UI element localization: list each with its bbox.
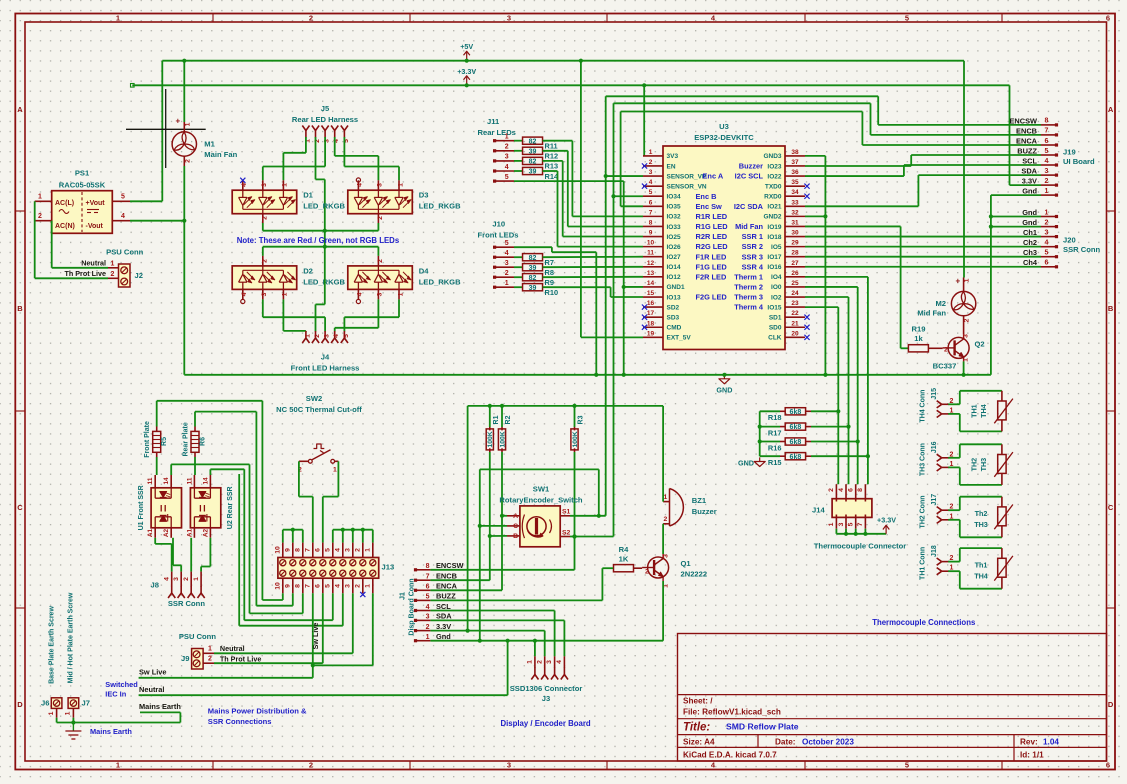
svg-text:1k: 1k xyxy=(914,334,923,343)
svg-text:IEC In: IEC In xyxy=(105,690,126,699)
svg-text:TH1 Conn: TH1 Conn xyxy=(920,547,927,580)
svg-text:EN: EN xyxy=(667,163,676,170)
svg-text:J2: J2 xyxy=(135,271,143,280)
svg-text:6: 6 xyxy=(1106,14,1110,23)
svg-text:24: 24 xyxy=(791,290,799,297)
svg-text:SSR Conn: SSR Conn xyxy=(1063,245,1100,254)
svg-text:TH1: TH1 xyxy=(970,404,979,418)
svg-text:Rear Plate: Rear Plate xyxy=(183,422,190,456)
svg-text:+: + xyxy=(956,277,961,286)
svg-text:IO17: IO17 xyxy=(767,254,781,261)
svg-text:R19: R19 xyxy=(912,324,926,333)
svg-text:6: 6 xyxy=(426,584,430,591)
svg-text:100K: 100K xyxy=(499,431,506,447)
svg-text:29: 29 xyxy=(791,240,799,247)
svg-text:14: 14 xyxy=(202,477,209,485)
svg-text:Buzzer: Buzzer xyxy=(739,162,763,171)
svg-text:TH4: TH4 xyxy=(979,404,988,418)
svg-text:Th Prot Live: Th Prot Live xyxy=(220,655,262,664)
svg-text:Sheet: /: Sheet: / xyxy=(683,697,713,706)
svg-text:IO5: IO5 xyxy=(771,244,782,251)
svg-text:82: 82 xyxy=(529,255,537,262)
svg-text:Gnd: Gnd xyxy=(1022,218,1037,227)
svg-text:A2: A2 xyxy=(163,528,170,537)
svg-text:3.3V: 3.3V xyxy=(1022,177,1037,186)
svg-text:3: 3 xyxy=(505,154,509,161)
svg-text:Sw Live: Sw Live xyxy=(139,668,167,677)
svg-text:SD1: SD1 xyxy=(769,314,782,321)
svg-text:1: 1 xyxy=(304,334,311,338)
svg-text:6k8: 6k8 xyxy=(790,454,802,461)
svg-text:7: 7 xyxy=(649,209,653,216)
svg-text:TH2: TH2 xyxy=(970,458,979,472)
svg-text:5: 5 xyxy=(1045,148,1049,155)
svg-text:7: 7 xyxy=(304,584,311,588)
svg-text:SENSOR_VP: SENSOR_VP xyxy=(667,173,707,180)
svg-text:SSR 2: SSR 2 xyxy=(742,242,763,251)
svg-text:Front LED Harness: Front LED Harness xyxy=(291,364,360,373)
svg-text:Rev:: Rev: xyxy=(1020,737,1038,746)
svg-text:Enc Sw: Enc Sw xyxy=(696,202,723,211)
svg-text:SMD Reflow Plate: SMD Reflow Plate xyxy=(726,722,799,732)
svg-text:Thermocouple Connections: Thermocouple Connections xyxy=(872,618,976,627)
svg-text:5: 5 xyxy=(324,584,331,588)
svg-text:5: 5 xyxy=(505,174,509,181)
svg-text:10: 10 xyxy=(647,240,655,247)
svg-text:2: 2 xyxy=(354,584,361,588)
svg-text:SCL: SCL xyxy=(436,602,451,611)
svg-text:ENCB: ENCB xyxy=(1016,126,1037,135)
svg-text:3: 3 xyxy=(505,260,509,267)
svg-text:Thermocouple Connector: Thermocouple Connector xyxy=(814,542,906,551)
svg-text:IO13: IO13 xyxy=(667,294,681,301)
svg-text:R1R LED: R1R LED xyxy=(696,212,728,221)
svg-text:2: 2 xyxy=(645,569,649,576)
svg-text:NC 50C Thermal Cut-off: NC 50C Thermal Cut-off xyxy=(276,405,362,414)
svg-text:R15: R15 xyxy=(768,458,782,467)
svg-text:4: 4 xyxy=(357,183,364,187)
svg-text:SSR Connections: SSR Connections xyxy=(208,717,272,726)
svg-text:1: 1 xyxy=(111,260,115,267)
svg-text:J4: J4 xyxy=(321,353,330,362)
svg-text:J17: J17 xyxy=(931,494,938,506)
svg-text:M1: M1 xyxy=(204,140,215,149)
svg-text:IO4: IO4 xyxy=(771,274,782,281)
svg-text:IO22: IO22 xyxy=(767,173,781,180)
svg-text:3: 3 xyxy=(662,554,669,558)
svg-text:6: 6 xyxy=(314,548,321,552)
svg-text:SDA: SDA xyxy=(436,612,452,621)
svg-text:Front Plate: Front Plate xyxy=(144,421,151,458)
svg-text:1: 1 xyxy=(65,711,72,715)
svg-text:R8: R8 xyxy=(545,268,554,277)
svg-text:A1: A1 xyxy=(186,528,193,537)
svg-text:D3: D3 xyxy=(419,191,429,200)
svg-text:1: 1 xyxy=(116,761,120,770)
svg-text:1: 1 xyxy=(185,122,192,126)
svg-text:Mains Earth: Mains Earth xyxy=(90,727,132,736)
svg-text:2: 2 xyxy=(261,259,268,263)
svg-text:R13: R13 xyxy=(545,162,559,171)
svg-text:IO2: IO2 xyxy=(771,294,782,301)
svg-text:3: 3 xyxy=(344,548,351,552)
svg-text:S1: S1 xyxy=(562,509,571,516)
svg-text:6: 6 xyxy=(649,199,653,206)
svg-text:+5V: +5V xyxy=(460,42,473,51)
svg-text:Display / Encoder Board: Display / Encoder Board xyxy=(501,719,591,728)
svg-text:82: 82 xyxy=(529,138,537,145)
svg-text:2: 2 xyxy=(664,516,668,523)
svg-text:3: 3 xyxy=(1045,229,1049,236)
svg-text:R5: R5 xyxy=(161,437,168,446)
svg-text:Mid / Hot Plate Earth Screw: Mid / Hot Plate Earth Screw xyxy=(68,592,75,683)
svg-text:2: 2 xyxy=(426,624,430,631)
svg-text:File: ReflowV1.kicad_sch: File: ReflowV1.kicad_sch xyxy=(683,708,781,717)
svg-text:PS1: PS1 xyxy=(75,169,90,178)
svg-text:2: 2 xyxy=(1045,178,1049,185)
svg-text:15: 15 xyxy=(647,290,655,297)
svg-text:2: 2 xyxy=(314,334,321,338)
svg-text:6: 6 xyxy=(848,488,855,492)
svg-text:Buzzer: Buzzer xyxy=(692,507,717,516)
svg-text:ENCA: ENCA xyxy=(1016,136,1038,145)
svg-text:IO19: IO19 xyxy=(767,224,781,231)
svg-text:Neutral: Neutral xyxy=(139,685,164,694)
svg-text:IO34: IO34 xyxy=(667,194,681,201)
svg-text:Mid Fan: Mid Fan xyxy=(917,308,946,317)
svg-text:C: C xyxy=(513,523,518,530)
svg-text:10: 10 xyxy=(274,582,281,590)
svg-text:1: 1 xyxy=(828,522,835,526)
svg-text:IO16: IO16 xyxy=(767,264,781,271)
svg-text:6k8: 6k8 xyxy=(790,424,802,431)
svg-text:GND: GND xyxy=(716,385,732,394)
svg-text:82: 82 xyxy=(529,159,537,166)
svg-text:Front LEDs: Front LEDs xyxy=(478,231,519,240)
svg-text:SSR 3: SSR 3 xyxy=(742,252,763,261)
svg-text:100K: 100K xyxy=(572,431,579,447)
svg-text:B: B xyxy=(513,533,518,540)
svg-text:8: 8 xyxy=(649,219,653,226)
svg-text:SSR Conn: SSR Conn xyxy=(168,599,205,608)
svg-text:J5: J5 xyxy=(321,104,330,113)
svg-text:KiCad E.D.A. kicad 7.0.7: KiCad E.D.A. kicad 7.0.7 xyxy=(683,750,777,759)
svg-text:1: 1 xyxy=(364,584,371,588)
svg-text:8: 8 xyxy=(857,488,864,492)
svg-text:3: 3 xyxy=(261,183,268,187)
svg-text:F2G LED: F2G LED xyxy=(696,293,728,302)
svg-text:AC(L): AC(L) xyxy=(55,200,74,207)
svg-text:R18: R18 xyxy=(768,413,782,422)
svg-text:3: 3 xyxy=(377,292,384,296)
svg-text:J16: J16 xyxy=(931,441,938,453)
svg-text:D2: D2 xyxy=(303,266,313,275)
svg-text:31: 31 xyxy=(791,219,799,226)
svg-text:6k8: 6k8 xyxy=(790,409,802,416)
svg-text:36: 36 xyxy=(791,169,799,176)
svg-text:9: 9 xyxy=(284,584,291,588)
svg-text:1K: 1K xyxy=(619,555,629,564)
svg-text:D: D xyxy=(1108,700,1114,709)
svg-text:SD3: SD3 xyxy=(667,314,680,321)
svg-text:2: 2 xyxy=(354,548,361,552)
svg-text:2: 2 xyxy=(111,271,115,278)
svg-text:4: 4 xyxy=(1045,240,1049,247)
svg-text:2: 2 xyxy=(261,216,268,220)
svg-text:1: 1 xyxy=(397,183,404,187)
svg-text:B: B xyxy=(1108,304,1114,313)
svg-text:Enc A: Enc A xyxy=(703,172,724,181)
svg-text:J15: J15 xyxy=(931,388,938,400)
svg-text:Main Fan: Main Fan xyxy=(204,150,237,159)
svg-text:+: + xyxy=(176,117,181,126)
svg-text:F2R LED: F2R LED xyxy=(696,272,727,281)
svg-text:Neutral: Neutral xyxy=(220,644,245,653)
svg-text:Note: These are Red / Green, n: Note: These are Red / Green, not RGB LED… xyxy=(237,236,400,245)
svg-text:1: 1 xyxy=(282,183,289,187)
svg-text:R7: R7 xyxy=(545,258,554,267)
svg-text:ENCSW: ENCSW xyxy=(436,561,464,570)
svg-text:3V3: 3V3 xyxy=(667,153,679,160)
svg-text:SD2: SD2 xyxy=(667,304,680,311)
svg-text:Mid Fan: Mid Fan xyxy=(735,222,763,231)
svg-text:26: 26 xyxy=(791,270,799,277)
svg-text:CLK: CLK xyxy=(768,335,782,342)
svg-text:4: 4 xyxy=(333,334,340,338)
svg-text:2: 2 xyxy=(183,577,190,581)
svg-text:BUZZ: BUZZ xyxy=(436,592,456,601)
svg-text:SW2: SW2 xyxy=(306,394,322,403)
svg-text:EXT_5V: EXT_5V xyxy=(667,335,692,342)
svg-text:1: 1 xyxy=(1045,188,1049,195)
svg-text:4: 4 xyxy=(426,604,430,611)
svg-text:4: 4 xyxy=(556,660,563,664)
svg-text:R10: R10 xyxy=(545,288,559,297)
svg-text:14: 14 xyxy=(163,477,170,485)
svg-text:A1: A1 xyxy=(147,528,154,537)
svg-text:SSD1306 Connector: SSD1306 Connector xyxy=(510,684,583,693)
svg-text:4: 4 xyxy=(241,292,248,296)
svg-text:R17: R17 xyxy=(768,429,782,438)
svg-text:SD0: SD0 xyxy=(769,325,782,332)
svg-text:IO0: IO0 xyxy=(771,284,782,291)
svg-text:1: 1 xyxy=(193,577,200,581)
svg-text:Ch3: Ch3 xyxy=(1023,248,1037,257)
svg-text:3: 3 xyxy=(507,14,511,23)
svg-text:SSR 1: SSR 1 xyxy=(742,232,763,241)
svg-text:J3: J3 xyxy=(542,694,550,703)
svg-text:13: 13 xyxy=(647,270,655,277)
svg-text:20: 20 xyxy=(791,330,799,337)
svg-text:R9: R9 xyxy=(545,278,554,287)
svg-text:S2: S2 xyxy=(562,529,571,536)
svg-text:39: 39 xyxy=(529,265,537,272)
svg-text:4: 4 xyxy=(241,183,248,187)
svg-text:4: 4 xyxy=(649,179,653,186)
svg-text:SCL: SCL xyxy=(1022,156,1037,165)
svg-text:30: 30 xyxy=(791,230,799,237)
svg-text:4: 4 xyxy=(1045,158,1049,165)
svg-text:3: 3 xyxy=(546,660,553,664)
svg-text:IO25: IO25 xyxy=(667,234,681,241)
svg-text:J10: J10 xyxy=(492,220,505,229)
svg-text:J13: J13 xyxy=(382,563,395,572)
svg-text:2: 2 xyxy=(309,14,313,23)
svg-text:3: 3 xyxy=(649,169,653,176)
svg-text:27: 27 xyxy=(791,260,799,267)
svg-text:4: 4 xyxy=(838,488,845,492)
svg-text:1: 1 xyxy=(649,149,653,156)
svg-text:Ch1: Ch1 xyxy=(1023,228,1037,237)
svg-text:LED_RKGB: LED_RKGB xyxy=(419,277,461,286)
svg-text:J20: J20 xyxy=(1063,236,1076,245)
svg-text:BC337: BC337 xyxy=(933,361,957,370)
svg-text:TH3 Conn: TH3 Conn xyxy=(920,443,927,476)
svg-text:1: 1 xyxy=(426,634,430,641)
svg-text:I2C SDA: I2C SDA xyxy=(734,202,764,211)
svg-text:R12: R12 xyxy=(545,152,559,161)
svg-text:3: 3 xyxy=(963,334,970,338)
svg-text:J8: J8 xyxy=(151,581,159,590)
svg-text:8: 8 xyxy=(426,563,430,570)
svg-text:1: 1 xyxy=(38,194,42,201)
svg-text:IO35: IO35 xyxy=(667,204,681,211)
svg-text:34: 34 xyxy=(791,189,799,196)
svg-text:Ch4: Ch4 xyxy=(1023,258,1038,267)
svg-text:Disp Board Conn: Disp Board Conn xyxy=(409,578,416,635)
svg-text:Neutral: Neutral xyxy=(81,259,106,268)
svg-text:39: 39 xyxy=(529,285,537,292)
svg-text:1: 1 xyxy=(282,292,289,296)
svg-text:2: 2 xyxy=(944,347,948,354)
svg-text:IO33: IO33 xyxy=(667,224,681,231)
svg-text:J19: J19 xyxy=(1063,148,1076,157)
svg-text:CMD: CMD xyxy=(667,325,682,332)
svg-text:1: 1 xyxy=(963,358,970,362)
svg-text:4: 4 xyxy=(334,584,341,588)
svg-text:2: 2 xyxy=(649,159,653,166)
svg-text:8: 8 xyxy=(294,584,301,588)
svg-text:Gnd: Gnd xyxy=(436,632,451,641)
svg-text:Therm 4: Therm 4 xyxy=(734,303,764,312)
svg-text:M2: M2 xyxy=(935,299,946,308)
svg-text:GND: GND xyxy=(738,458,754,467)
svg-text:7: 7 xyxy=(426,574,430,581)
svg-text:Gnd: Gnd xyxy=(1022,187,1037,196)
svg-text:9: 9 xyxy=(284,548,291,552)
svg-text:2: 2 xyxy=(377,216,384,220)
svg-text:U1 Front SSR: U1 Front SSR xyxy=(138,485,145,530)
svg-text:1: 1 xyxy=(333,467,337,474)
svg-text:5: 5 xyxy=(905,14,909,23)
svg-text:7: 7 xyxy=(857,522,864,526)
svg-text:IO12: IO12 xyxy=(667,274,681,281)
svg-text:3: 3 xyxy=(173,577,180,581)
svg-text:3.3V: 3.3V xyxy=(436,622,451,631)
svg-text:100K: 100K xyxy=(487,431,494,447)
svg-text:IO26: IO26 xyxy=(667,244,681,251)
svg-text:17: 17 xyxy=(647,310,655,317)
svg-text:PSU Conn: PSU Conn xyxy=(179,632,216,641)
svg-text:5: 5 xyxy=(343,334,350,338)
svg-text:4: 4 xyxy=(334,548,341,552)
svg-text:1: 1 xyxy=(208,646,212,653)
svg-text:2: 2 xyxy=(309,761,313,770)
svg-text:1: 1 xyxy=(397,292,404,296)
svg-text:Sw Live: Sw Live xyxy=(311,623,320,650)
svg-text:14: 14 xyxy=(647,280,655,287)
svg-text:19: 19 xyxy=(647,330,655,337)
svg-text:+3.3V: +3.3V xyxy=(457,67,476,76)
svg-text:2: 2 xyxy=(377,259,384,263)
svg-text:R3: R3 xyxy=(578,415,585,424)
svg-text:25: 25 xyxy=(791,280,799,287)
svg-text:Q2: Q2 xyxy=(975,339,985,348)
svg-text:R2R LED: R2R LED xyxy=(696,232,728,241)
svg-text:D: D xyxy=(17,700,23,709)
svg-text:Mains Earth: Mains Earth xyxy=(139,702,181,711)
svg-text:ENCB: ENCB xyxy=(436,572,457,581)
svg-text:7: 7 xyxy=(304,548,311,552)
svg-text:IO18: IO18 xyxy=(767,234,781,241)
svg-text:Rear LEDs: Rear LEDs xyxy=(478,128,516,137)
svg-text:6: 6 xyxy=(1045,138,1049,145)
svg-text:J18: J18 xyxy=(931,545,938,557)
svg-text:38: 38 xyxy=(791,149,799,156)
svg-text:5: 5 xyxy=(324,548,331,552)
svg-text:IO15: IO15 xyxy=(767,304,781,311)
svg-text:IO21: IO21 xyxy=(767,204,781,211)
svg-text:A: A xyxy=(1108,105,1114,114)
svg-text:I2C SCL: I2C SCL xyxy=(735,172,764,181)
svg-text:5: 5 xyxy=(905,761,909,770)
svg-text:U3: U3 xyxy=(719,122,729,131)
svg-text:5: 5 xyxy=(426,594,430,601)
svg-text:IO23: IO23 xyxy=(767,163,781,170)
svg-text:Th1: Th1 xyxy=(975,560,988,569)
svg-text:1.04: 1.04 xyxy=(1043,737,1059,746)
svg-text:2: 2 xyxy=(208,656,212,663)
svg-text:1: 1 xyxy=(964,278,971,282)
svg-text:Therm 3: Therm 3 xyxy=(734,293,763,302)
svg-text:1: 1 xyxy=(527,660,534,664)
svg-text:3: 3 xyxy=(377,183,384,187)
svg-text:IO32: IO32 xyxy=(667,214,681,221)
svg-text:1: 1 xyxy=(48,711,55,715)
svg-text:IO14: IO14 xyxy=(667,264,681,271)
svg-text:3: 3 xyxy=(426,614,430,621)
svg-text:PSU Conn: PSU Conn xyxy=(106,247,143,256)
svg-text:35: 35 xyxy=(791,179,799,186)
svg-text:5: 5 xyxy=(505,240,509,247)
svg-text:A: A xyxy=(513,513,518,520)
svg-text:R1G LED: R1G LED xyxy=(696,222,729,231)
svg-text:F1G LED: F1G LED xyxy=(696,262,728,271)
svg-text:8: 8 xyxy=(1045,118,1049,125)
svg-text:4: 4 xyxy=(505,250,509,257)
svg-text:3: 3 xyxy=(507,761,511,770)
svg-text:+3.3V: +3.3V xyxy=(877,516,896,525)
svg-text:TH3: TH3 xyxy=(974,520,988,529)
svg-text:Title:: Title: xyxy=(683,722,710,734)
svg-text:8: 8 xyxy=(294,548,301,552)
svg-text:28: 28 xyxy=(791,250,799,257)
svg-text:23: 23 xyxy=(791,300,799,307)
svg-text:32: 32 xyxy=(791,209,799,216)
svg-text:IO27: IO27 xyxy=(667,254,681,261)
svg-text:Switched: Switched xyxy=(105,680,138,689)
svg-text:TH4: TH4 xyxy=(974,571,988,580)
